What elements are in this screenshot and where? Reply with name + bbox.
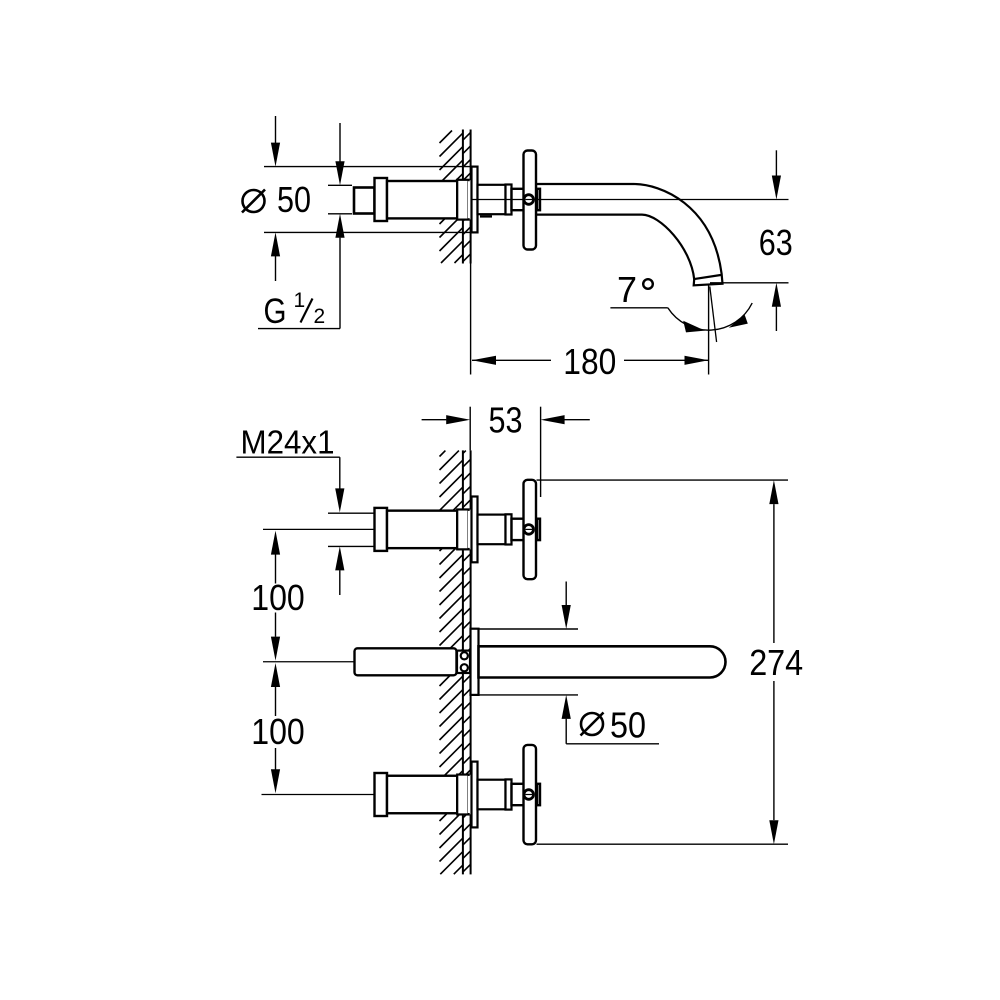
- svg-text:50: 50: [277, 179, 311, 220]
- svg-text:63: 63: [759, 222, 793, 263]
- svg-text:7: 7: [617, 269, 637, 310]
- svg-text:1: 1: [294, 289, 306, 312]
- svg-text:274: 274: [749, 642, 803, 683]
- svg-text:100: 100: [251, 577, 305, 618]
- svg-text:100: 100: [251, 711, 305, 752]
- svg-text:M24x1: M24x1: [241, 425, 335, 462]
- svg-text:2: 2: [314, 305, 326, 328]
- svg-text:180: 180: [563, 341, 616, 382]
- svg-text:50: 50: [610, 705, 646, 746]
- svg-text:G: G: [264, 292, 287, 331]
- svg-text:53: 53: [489, 400, 523, 441]
